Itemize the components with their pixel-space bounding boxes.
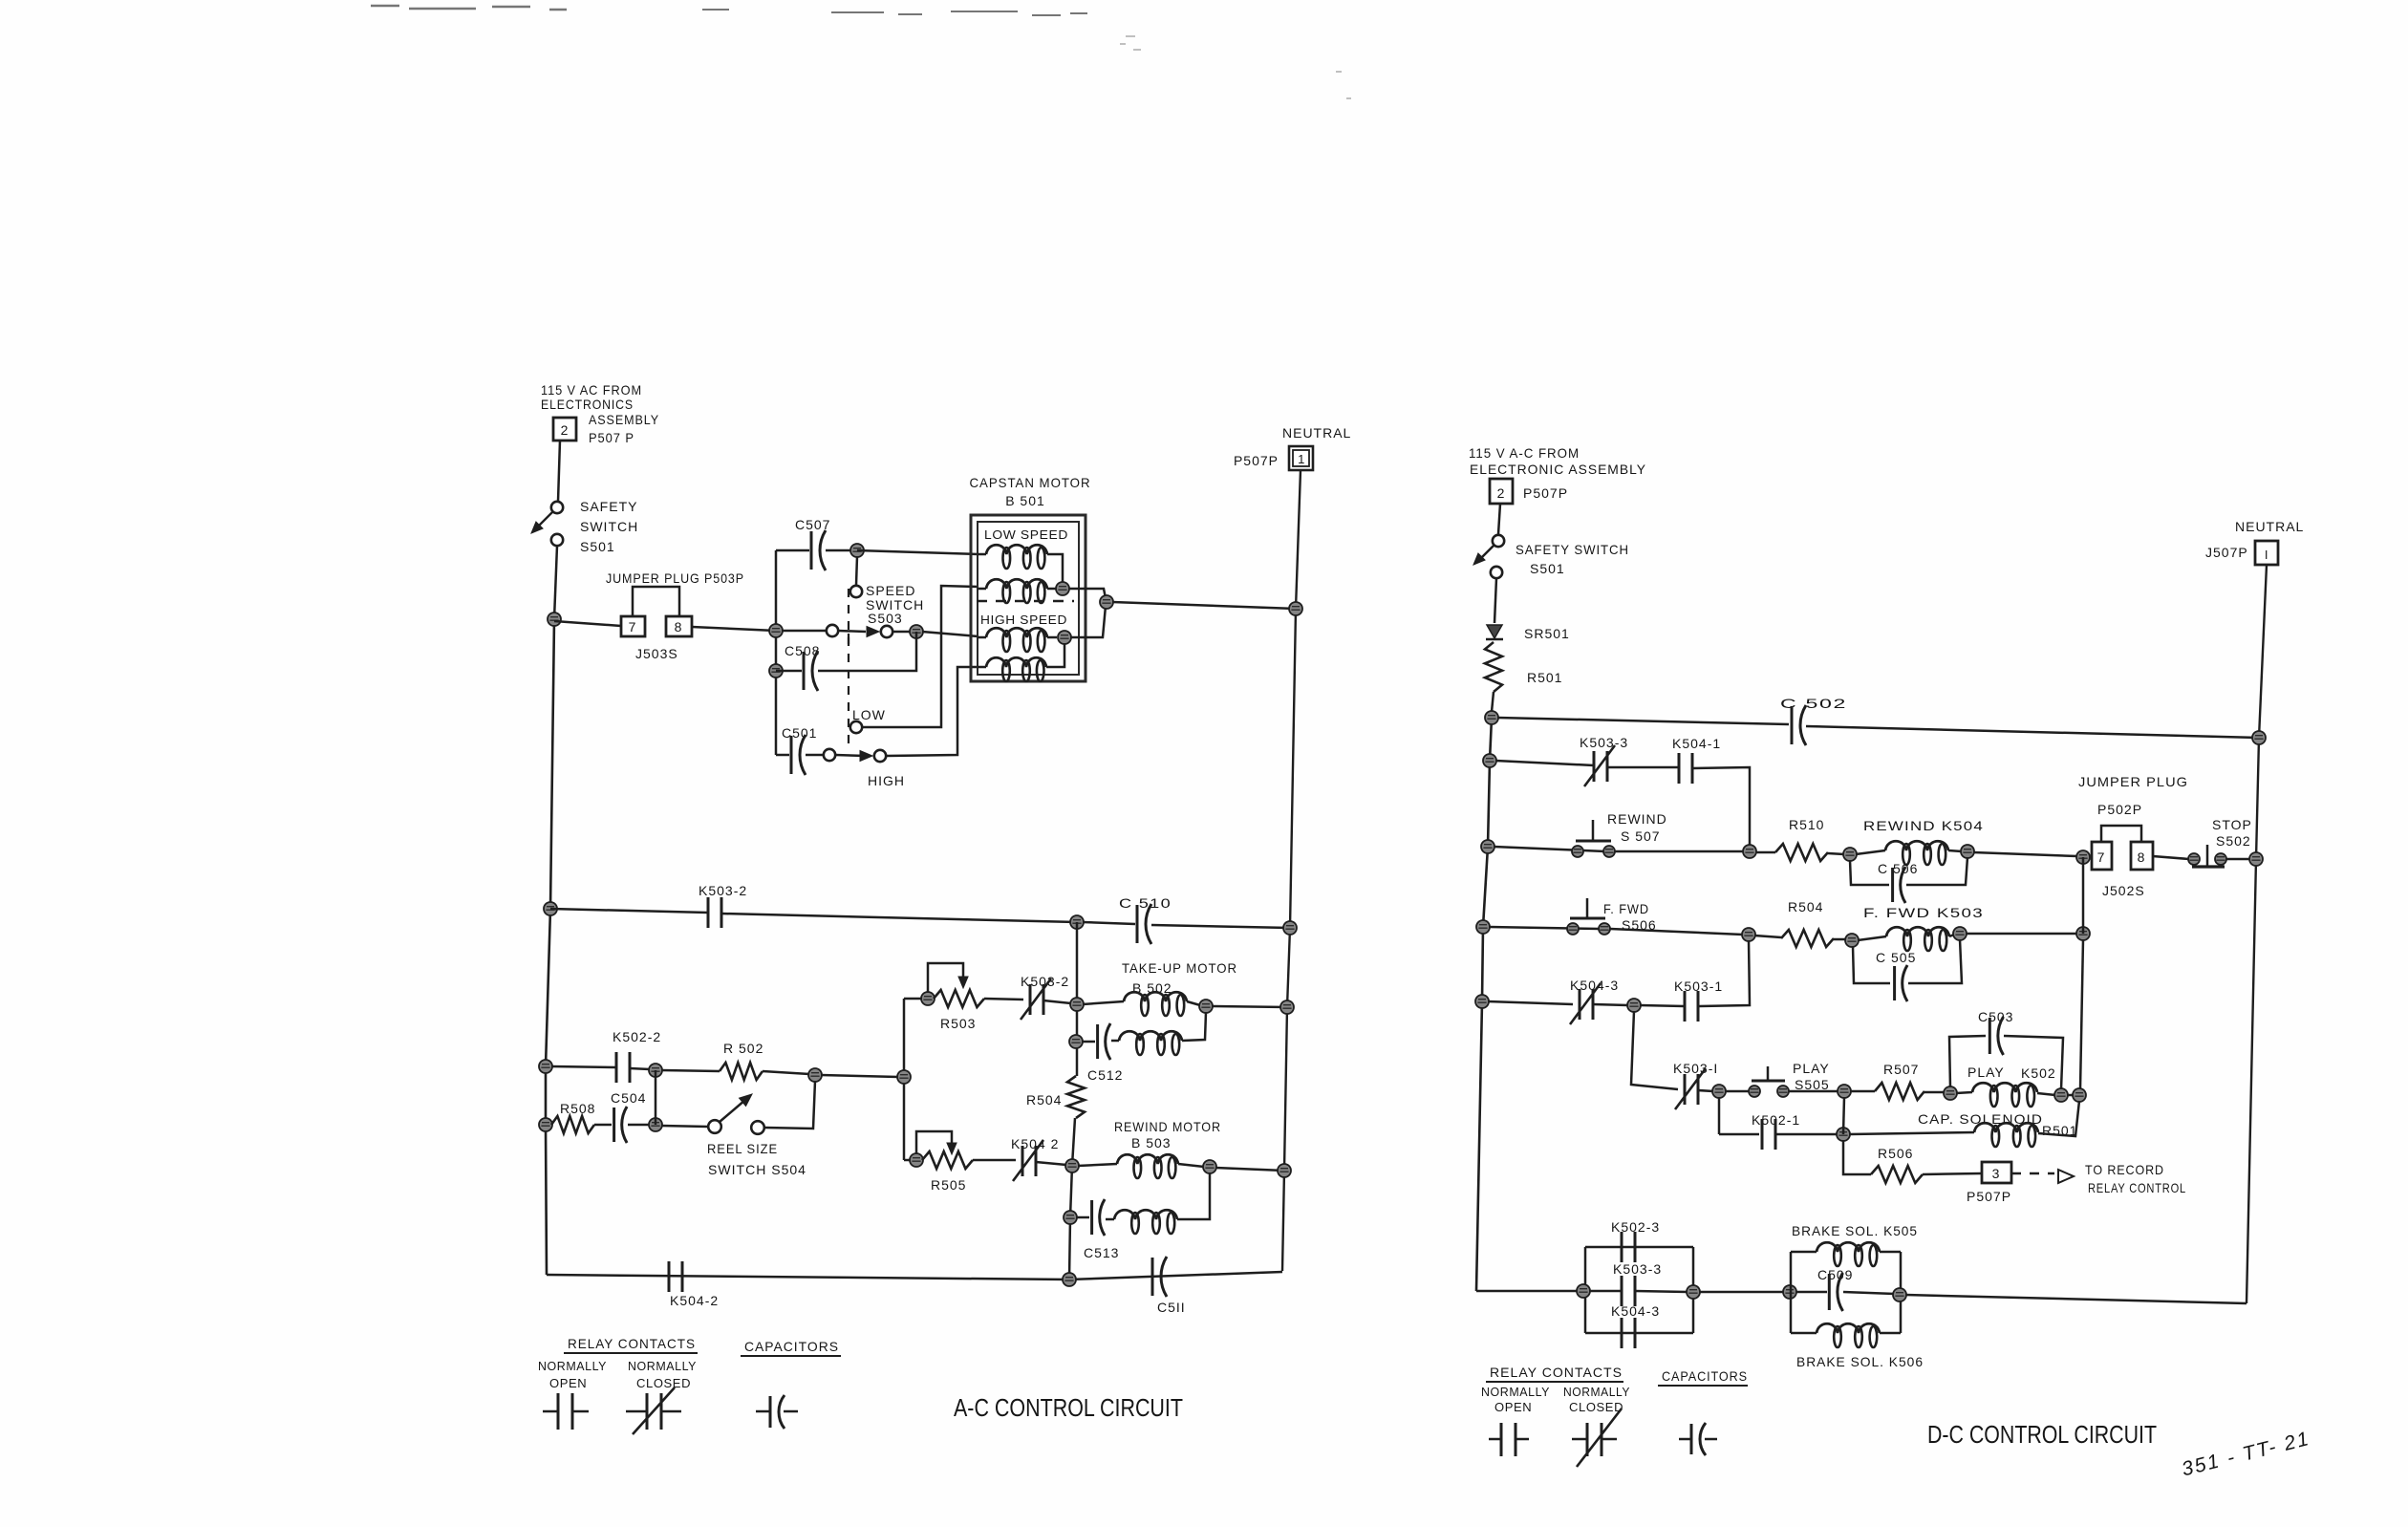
node D15: [1475, 995, 1489, 1008]
svg-text:SPEED: SPEED: [866, 583, 915, 598]
svg-text:RELAY CONTROL: RELAY CONTROL: [2088, 1180, 2186, 1195]
wire S501 to SR501: [1494, 578, 1496, 623]
svg-text:OPEN: OPEN: [1494, 1400, 1532, 1414]
node D22: [1837, 1128, 1850, 1141]
svg-text:RELAY CONTACTS: RELAY CONTACTS: [1490, 1365, 1623, 1380]
D-C bottom rail wire: [1476, 1290, 1578, 1293]
wire C504 to node A26: [628, 1124, 650, 1127]
wire R508 to C504: [594, 1124, 612, 1127]
node D19: [1944, 1086, 1957, 1100]
wire to K502-2: [551, 1066, 616, 1067]
node D18: [1838, 1085, 1851, 1098]
wire node A1 to jumper pin 7: [554, 621, 621, 626]
wire node D16 down to play branch: [1631, 1011, 1678, 1089]
connector pin 7 J503S: [621, 616, 645, 636]
node D23: [1577, 1284, 1590, 1298]
svg-text:A-C CONTROL CIRCUIT: A-C CONTROL CIRCUIT: [954, 1393, 1183, 1422]
node D9: [2249, 852, 2263, 866]
capstan high speed winding 3: [978, 636, 986, 639]
speed switch S503 arrow contact: [867, 627, 879, 637]
vertical wire D14 to play row: [2080, 939, 2083, 1089]
wire C507 row left: [776, 549, 809, 552]
wire node A2 to S503 pole: [782, 630, 826, 633]
svg-text:R506: R506: [1878, 1146, 1913, 1161]
wire S503 contact to node A4: [892, 631, 911, 634]
wire row left: [1488, 1001, 1573, 1004]
svg-text:SR501: SR501: [1524, 626, 1570, 641]
svg-text:8: 8: [675, 619, 683, 634]
svg-text:B 501: B 501: [1005, 493, 1045, 508]
wire D22 down to R506: [1843, 1140, 1871, 1174]
svg-text:SWITCH S504: SWITCH S504: [708, 1162, 806, 1177]
node A3: [850, 544, 864, 557]
branch vertical wire C507/C508/C501: [775, 550, 778, 755]
node D4: [1481, 840, 1494, 853]
wire K503-3 to K504-1: [1607, 766, 1679, 769]
wire K503 coil to node D14: [1966, 933, 2077, 936]
svg-text:CLOSED: CLOSED: [636, 1376, 691, 1390]
node A1: [548, 613, 561, 626]
wire C502 row: [1497, 718, 1789, 724]
rewind motor B503 winding 2: [1106, 1218, 1114, 1221]
svg-text:C509: C509: [1817, 1267, 1853, 1282]
node D16: [1627, 999, 1641, 1012]
svg-text:R505: R505: [931, 1177, 966, 1193]
node A6: [1100, 595, 1113, 609]
wire K502-1 row: [1719, 1133, 1759, 1136]
svg-text:K503-3: K503-3: [1580, 735, 1628, 750]
svg-text:STOP: STOP: [2212, 817, 2252, 832]
node D3: [1483, 754, 1496, 767]
svg-text:NORMALLY: NORMALLY: [628, 1359, 697, 1373]
wire contact to node D17: [1698, 1090, 1713, 1091]
svg-text:K504-1: K504-1: [1672, 736, 1721, 751]
svg-text:REWIND: REWIND: [1607, 811, 1667, 827]
wire R502 to node A23: [763, 1071, 809, 1074]
svg-text:SAFETY: SAFETY: [580, 499, 637, 514]
connector pin 2 P507P (A-C): [553, 418, 576, 441]
wire C501 row: [776, 754, 789, 757]
wire node A26 to reel size switch: [661, 1126, 708, 1127]
node D26: [1893, 1288, 1906, 1301]
svg-text:REWIND K504: REWIND K504: [1863, 818, 1984, 833]
svg-text:J502S: J502S: [2102, 883, 2145, 898]
legend capacitor symbol (D-C): [1679, 1438, 1691, 1441]
svg-text:ELECTRONICS: ELECTRONICS: [541, 397, 634, 412]
svg-text:LOW: LOW: [852, 707, 886, 722]
svg-text:K502: K502: [2021, 1065, 2056, 1081]
node D17: [1712, 1085, 1726, 1098]
node D14: [2076, 927, 2090, 940]
svg-text:S501: S501: [1530, 561, 1565, 576]
speed switch S503 pole: [827, 625, 838, 636]
center feeder vertical wire: [1076, 922, 1079, 1076]
A-C left rail wire: [546, 619, 554, 1275]
wire pin2 to safety switch (D-C): [1498, 504, 1500, 534]
S503 high contact circles: [824, 749, 835, 761]
svg-text:SAFETY SWITCH: SAFETY SWITCH: [1516, 542, 1629, 557]
connector pin 1 J507P: [2255, 541, 2278, 565]
svg-text:SWITCH: SWITCH: [580, 519, 638, 534]
svg-text:2: 2: [561, 422, 570, 438]
wire S505 to node D18: [1789, 1090, 1838, 1093]
A-C bottom rail wire: [547, 1275, 1069, 1280]
node A19: [1278, 1164, 1291, 1177]
capstan low speed winding 1: [978, 553, 986, 556]
svg-text:S505: S505: [1795, 1077, 1830, 1092]
wire reel switch to node A23: [764, 1081, 815, 1129]
S503 mechanical linkage dashed: [848, 589, 849, 751]
svg-text:REEL SIZE: REEL SIZE: [707, 1141, 778, 1156]
wire B502 to neutral rail: [1212, 1006, 1287, 1007]
wire K503-2 to node A9: [721, 914, 1077, 922]
wire K504-3 to node D16: [1593, 1004, 1628, 1005]
node A23: [808, 1068, 822, 1082]
node B501a: [1056, 582, 1069, 595]
capstan motor B501 box: [971, 515, 1086, 681]
node D6: [1843, 848, 1857, 861]
svg-text:C513: C513: [1084, 1245, 1119, 1260]
dashed wire to record relay control: [2011, 1172, 2054, 1174]
svg-text:K502-2: K502-2: [613, 1029, 661, 1044]
svg-text:J507P: J507P: [2205, 545, 2248, 560]
svg-text:P507P: P507P: [1967, 1189, 2011, 1204]
svg-text:TAKE-UP MOTOR: TAKE-UP MOTOR: [1122, 960, 1237, 976]
wire C501 to switch contact: [806, 754, 824, 757]
wire node A3 down to speed switch upper contact: [856, 556, 857, 585]
svg-text:R510: R510: [1789, 817, 1824, 832]
wire rewind row left: [1494, 847, 1605, 851]
jumper plug P503P bracket: [633, 587, 679, 616]
svg-text:BRAKE SOL. K505: BRAKE SOL. K505: [1792, 1223, 1918, 1238]
svg-text:R503: R503: [940, 1016, 976, 1031]
wire C508 to high speed branch: [818, 632, 916, 671]
legend NC contact symbol (D-C): [1572, 1438, 1587, 1441]
vertical wire D18-D22: [1843, 1097, 1844, 1134]
wire node A3 to capstan motor low speed: [857, 550, 978, 554]
node D13: [1953, 927, 1967, 940]
svg-text:3: 3: [1992, 1166, 2001, 1181]
svg-text:PLAY: PLAY: [1793, 1061, 1830, 1076]
wire block to brake solenoids: [1699, 1291, 1784, 1294]
svg-text:NEUTRAL: NEUTRAL: [2235, 519, 2304, 534]
svg-text:R501: R501: [1527, 670, 1562, 685]
svg-text:8: 8: [2138, 850, 2146, 865]
legend NO contact symbol (D-C): [1489, 1438, 1501, 1441]
node D12: [1845, 934, 1859, 947]
svg-text:C 510: C 510: [1119, 895, 1172, 911]
node A21: [539, 1060, 552, 1073]
svg-text:F. FWD K503: F. FWD K503: [1863, 905, 1984, 920]
svg-text:NORMALLY: NORMALLY: [538, 1359, 607, 1373]
wire C502 to neutral rail: [1806, 726, 2259, 738]
node A22: [649, 1064, 662, 1077]
wire node A22 to R502: [661, 1070, 720, 1071]
node A16: [910, 1153, 923, 1167]
svg-text:S503: S503: [868, 611, 903, 626]
wire K502-1 to node D22: [1775, 1133, 1838, 1136]
node D7: [1961, 845, 1974, 858]
svg-text:JUMPER PLUG: JUMPER PLUG: [2078, 774, 2188, 789]
node D10: [1476, 920, 1490, 934]
svg-text:F. FWD: F. FWD: [1603, 901, 1649, 916]
svg-text:REWIND MOTOR: REWIND MOTOR: [1114, 1119, 1221, 1134]
wire ffwd row left: [1489, 927, 1600, 929]
wire pin8 to STOP switch: [2153, 856, 2189, 859]
node D2: [2252, 731, 2266, 744]
node D20: [2054, 1088, 2068, 1102]
connector pin 8 J502S: [2131, 842, 2153, 870]
node A8: [544, 902, 557, 915]
svg-text:CLOSED: CLOSED: [1569, 1400, 1623, 1414]
connector pin 3 P507P (record): [1982, 1162, 2011, 1183]
svg-text:JUMPER PLUG P503P: JUMPER PLUG P503P: [606, 570, 744, 586]
wire contact to node A17: [1036, 1162, 1066, 1165]
svg-text:K503-2: K503-2: [699, 883, 747, 898]
safety switch S501 (A-C): [551, 502, 563, 513]
legend NC contact symbol: [626, 1410, 647, 1413]
rheostat R503: [904, 998, 922, 1000]
motor section divider dashed: [977, 600, 1074, 602]
svg-text:P507 P: P507 P: [589, 430, 634, 445]
connector pin 8 J503S: [666, 616, 692, 636]
node D1: [1485, 711, 1498, 724]
svg-text:C501: C501: [782, 725, 817, 741]
wire to K503-3: [1495, 761, 1594, 765]
node A7: [1289, 602, 1302, 615]
wire LOW contact to capstan winding 2: [862, 586, 978, 727]
node A18: [1203, 1160, 1216, 1173]
svg-text:C 506: C 506: [1878, 861, 1918, 876]
svg-text:S502: S502: [2216, 833, 2251, 849]
svg-text:C512: C512: [1087, 1067, 1123, 1083]
safety switch S501 (D-C): [1493, 535, 1504, 547]
wire R501 to node D1: [1492, 692, 1494, 712]
speed switch S503 upper contact: [850, 586, 862, 597]
svg-text:OPEN: OPEN: [549, 1376, 587, 1390]
svg-text:CAPACITORS: CAPACITORS: [744, 1339, 839, 1354]
node B501b: [1058, 631, 1071, 644]
wire R505 to K504-2: [973, 1159, 1016, 1162]
svg-text:K504-3: K504-3: [1611, 1303, 1660, 1319]
capstan low speed winding 2: [978, 588, 986, 591]
pushbutton PLAY S505: [1749, 1086, 1760, 1097]
svg-text:R 502: R 502: [723, 1041, 763, 1056]
node D8: [2076, 850, 2090, 864]
svg-text:BRAKE SOL. K506: BRAKE SOL. K506: [1796, 1354, 1924, 1369]
reel size switch S504: [708, 1120, 721, 1133]
svg-text:CAPACITORS: CAPACITORS: [1662, 1368, 1748, 1384]
svg-text:S 507: S 507: [1621, 828, 1661, 844]
node A2: [769, 624, 783, 637]
node A26: [649, 1118, 662, 1131]
pushbutton F.FWD S506: [1567, 923, 1579, 935]
svg-text:C503: C503: [1978, 1009, 2013, 1024]
node A14: [1280, 1000, 1294, 1014]
connector pin 7 J502S: [2092, 842, 2112, 870]
wire C510 to neutral rail: [1151, 925, 1290, 928]
wire to PLAY button: [1725, 1090, 1749, 1093]
svg-text:C5II: C5II: [1157, 1300, 1186, 1315]
svg-text:P502P: P502P: [2097, 802, 2142, 817]
svg-text:K504-2: K504-2: [670, 1293, 719, 1308]
svg-text:NEUTRAL: NEUTRAL: [1282, 425, 1351, 441]
node A27: [1063, 1273, 1076, 1286]
svg-text:C507: C507: [795, 517, 830, 532]
svg-text:P507P: P507P: [1234, 453, 1279, 468]
svg-text:R507: R507: [1883, 1062, 1919, 1077]
wire node A23 to node A24: [821, 1075, 898, 1077]
svg-text:I: I: [2265, 548, 2268, 562]
take-up motor B502 winding 2: [1111, 1040, 1119, 1043]
svg-text:115 V AC FROM: 115 V AC FROM: [541, 382, 642, 398]
node A11: [921, 992, 935, 1005]
svg-text:LOW SPEED: LOW SPEED: [984, 527, 1068, 542]
drawing number 351-TT-21 handwritten: [2180, 1428, 2312, 1481]
wire winding junction to node A6: [1068, 589, 1106, 598]
svg-text:K503-I: K503-I: [1673, 1061, 1718, 1076]
svg-text:CAPSTAN MOTOR: CAPSTAN MOTOR: [970, 475, 1091, 490]
parallel contact block bracket: [1584, 1247, 1587, 1333]
wire K502-2 to node A22: [630, 1068, 650, 1069]
wire pin2 to safety switch: [558, 441, 560, 502]
A-C neutral rail wire: [1282, 470, 1301, 1271]
svg-text:R504: R504: [1788, 899, 1823, 914]
svg-text:ELECTRONIC ASSEMBLY: ELECTRONIC ASSEMBLY: [1470, 462, 1646, 477]
wire brake row to neutral rail: [1905, 1295, 2247, 1303]
svg-text:P507P: P507P: [1523, 485, 1568, 501]
wire K504-1 to rewind row: [1692, 767, 1750, 847]
svg-text:PLAY: PLAY: [1967, 1065, 2005, 1080]
svg-text:NORMALLY: NORMALLY: [1563, 1385, 1630, 1399]
node A15: [1069, 1035, 1083, 1048]
wire node D17 down: [1718, 1097, 1721, 1134]
wire node A6 to neutral rail: [1112, 602, 1296, 609]
svg-text:D-C CONTROL CIRCUIT: D-C CONTROL CIRCUIT: [1927, 1420, 2157, 1449]
D-C left rail wire: [1476, 718, 1492, 1291]
svg-text:RELAY CONTACTS: RELAY CONTACTS: [568, 1336, 696, 1351]
wire pin8 to node A2: [692, 627, 776, 631]
legend capacitor symbol: [756, 1410, 770, 1413]
wire S507 to node D5: [1615, 850, 1744, 853]
svg-text:K503-3: K503-3: [1613, 1261, 1662, 1277]
node A13: [1199, 1000, 1213, 1013]
node A25: [539, 1118, 552, 1131]
svg-text:C504: C504: [611, 1090, 646, 1106]
wire K503-1 up to node D11: [1698, 940, 1750, 1006]
node D24: [1687, 1285, 1700, 1299]
R503 block left vertical wire: [903, 999, 906, 1160]
wire S501 to node A1: [554, 546, 557, 619]
node A5: [769, 664, 783, 677]
svg-text:HIGH: HIGH: [868, 773, 905, 788]
node A24: [897, 1070, 911, 1084]
svg-text:2: 2: [1497, 485, 1506, 501]
wire node A4 to capstan motor high speed: [922, 632, 978, 636]
node A17: [1065, 1159, 1079, 1172]
wire node D16 to K503-1: [1640, 1005, 1685, 1006]
wire HIGH contact to capstan winding 4: [886, 667, 978, 756]
brake solenoid block frame: [1790, 1252, 1793, 1333]
svg-text:NORMALLY: NORMALLY: [1481, 1385, 1550, 1399]
wire node A9 to C510: [1083, 922, 1135, 924]
svg-text:7: 7: [2097, 850, 2106, 865]
wire C508 row: [776, 670, 802, 673]
legend NO contact symbol: [543, 1410, 558, 1413]
wire R503 to K503-2b: [984, 999, 1023, 1000]
wire S503 pole to contact: [838, 631, 866, 632]
svg-text:TO RECORD: TO RECORD: [2085, 1162, 2164, 1177]
svg-text:C 505: C 505: [1876, 950, 1916, 965]
svg-text:R508: R508: [560, 1101, 595, 1116]
node A12: [1070, 998, 1084, 1011]
svg-text:S501: S501: [580, 539, 615, 554]
node A4: [910, 625, 923, 638]
svg-text:ASSEMBLY: ASSEMBLY: [589, 412, 659, 427]
capstan high speed winding 4: [978, 666, 986, 669]
node D5: [1743, 845, 1756, 858]
node A9: [1070, 915, 1084, 929]
node D11: [1742, 928, 1755, 941]
svg-text:B 503: B 503: [1131, 1135, 1172, 1151]
wire K503-2 row left: [550, 909, 708, 913]
wire STOP to neutral rail: [2226, 858, 2250, 861]
node D21: [2073, 1088, 2086, 1102]
wire block middle: [1589, 1290, 1623, 1293]
wire winding3 junction to node A6: [1070, 606, 1106, 637]
vertical wire A22-A26: [655, 1070, 657, 1125]
svg-text:J503S: J503S: [635, 646, 678, 661]
wire K504 coil to jumper node D8: [1973, 852, 2077, 856]
node A10: [1283, 921, 1297, 935]
svg-text:115 V A-C FROM: 115 V A-C FROM: [1469, 445, 1580, 461]
node D25: [1783, 1285, 1796, 1299]
wire contact to node A12: [1043, 1000, 1071, 1003]
svg-text:R504: R504: [1026, 1092, 1062, 1108]
svg-text:7: 7: [629, 619, 637, 634]
connector pin 1 P507P (A-C neutral): [1289, 446, 1313, 470]
wire S506 to node D11: [1610, 929, 1743, 935]
node A20: [1064, 1211, 1077, 1224]
wire B503 to neutral rail: [1215, 1168, 1284, 1171]
vertical wire D8-D14: [2082, 857, 2085, 934]
connector pin 2 P507P (D-C): [1490, 479, 1513, 504]
svg-text:1: 1: [1298, 452, 1305, 466]
svg-text:HIGH SPEED: HIGH SPEED: [980, 613, 1067, 627]
pushbutton REWIND S507: [1572, 846, 1583, 857]
wire C507 to node A3: [826, 549, 857, 552]
D-C neutral rail wire: [2247, 565, 2267, 1303]
